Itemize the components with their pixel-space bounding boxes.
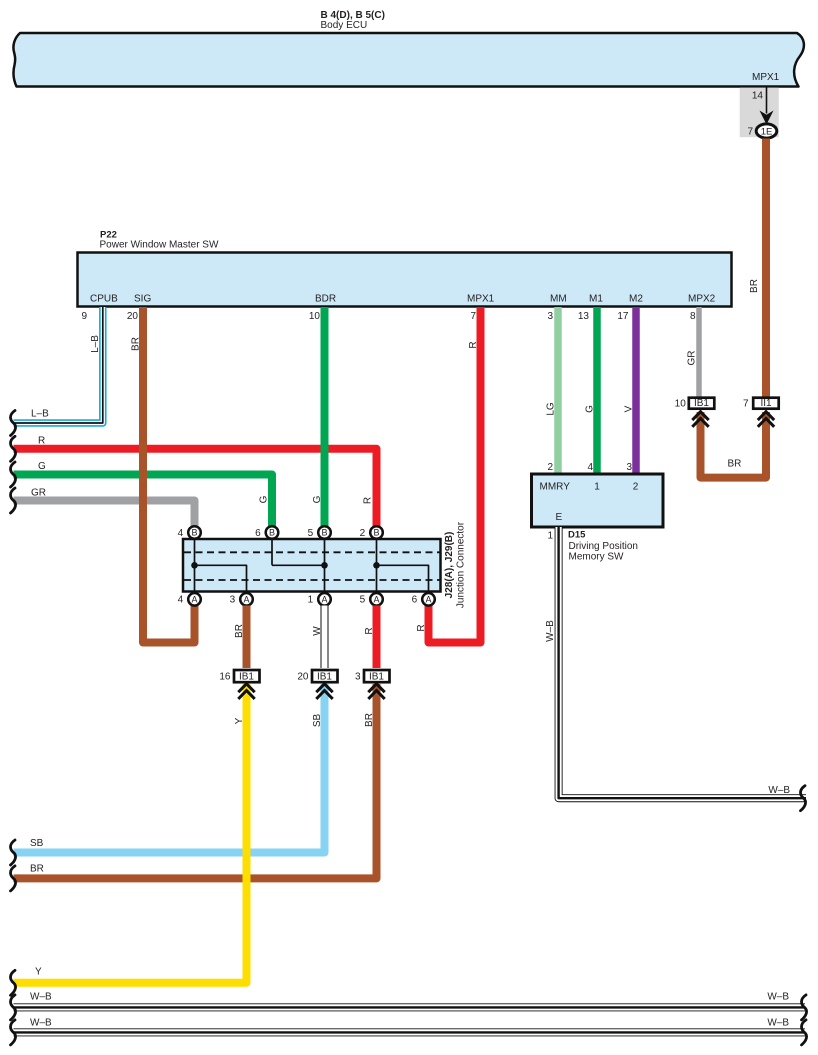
svg-text:W–B: W–B	[767, 992, 789, 1003]
connector IB1 (16)	[234, 670, 260, 682]
svg-text:R: R	[38, 436, 45, 447]
svg-text:1E: 1E	[761, 126, 773, 137]
svg-text:V: V	[624, 405, 635, 412]
wire Y from IB1 to left edge	[14, 684, 247, 983]
wire GR (left edge to 4B)	[14, 501, 195, 528]
Body ECU connector band	[13, 33, 803, 87]
svg-text:MPX2: MPX2	[688, 294, 716, 305]
svg-text:IB1: IB1	[694, 398, 709, 409]
wire GR from MPX2 to IB1	[696, 307, 702, 397]
arrow	[760, 111, 774, 125]
svg-text:M1: M1	[589, 294, 603, 305]
torn edge marks left (upper)	[11, 411, 16, 436]
pin 6B	[266, 526, 279, 539]
svg-text:A: A	[321, 595, 327, 605]
svg-text:4: 4	[178, 595, 184, 606]
svg-text:R: R	[468, 341, 479, 348]
wire SB from IB1 to left edge	[14, 684, 325, 853]
wire L-B from CPUB	[14, 307, 103, 423]
svg-text:MM: MM	[550, 294, 567, 305]
svg-text:BR: BR	[728, 459, 742, 470]
svg-text:MMRY: MMRY	[540, 482, 571, 493]
svg-text:BDR: BDR	[315, 294, 336, 305]
wire G (left edge to 6B)	[14, 475, 273, 528]
torn mark right	[801, 786, 806, 811]
internal wiring	[195, 539, 429, 591]
svg-text:9: 9	[81, 311, 87, 322]
svg-text:20: 20	[297, 672, 309, 683]
connector IB1 (20)	[312, 670, 338, 682]
svg-text:B: B	[191, 528, 197, 538]
svg-text:3: 3	[626, 462, 632, 473]
svg-text:MPX1: MPX1	[467, 294, 495, 305]
svg-text:BR: BR	[364, 713, 375, 727]
svg-text:B: B	[269, 528, 275, 538]
svg-text:Junction Connector: Junction Connector	[456, 521, 467, 608]
wire BR from SIG to 4A	[143, 307, 195, 643]
svg-text:3: 3	[230, 595, 236, 606]
svg-text:IB1: IB1	[239, 672, 254, 683]
svg-text:SB: SB	[30, 838, 44, 849]
pin 4B	[188, 526, 201, 539]
connector 1E	[756, 124, 777, 138]
pin 5A	[370, 593, 383, 606]
svg-text:W–B: W–B	[767, 1018, 789, 1029]
svg-text:J28(A), J29(B): J28(A), J29(B)	[444, 532, 455, 599]
svg-text:LG: LG	[545, 402, 556, 416]
connector IB1 (3)	[364, 670, 390, 682]
wire pin lead	[766, 87, 768, 114]
svg-text:17: 17	[617, 311, 629, 322]
svg-text:W: W	[312, 626, 323, 636]
svg-text:14: 14	[752, 91, 764, 102]
connector IB1 (10) right	[689, 398, 715, 409]
svg-text:Body ECU: Body ECU	[321, 20, 368, 31]
pin 4A	[188, 593, 201, 606]
P22 Power Window Master SW box	[78, 253, 732, 307]
junction dots	[191, 562, 198, 569]
svg-text:10: 10	[675, 399, 687, 410]
svg-text:II1: II1	[760, 398, 772, 409]
svg-text:Power Window Master SW: Power Window Master SW	[100, 240, 219, 251]
svg-text:3: 3	[355, 672, 361, 683]
torn marks left (lower)	[11, 840, 16, 865]
dashed row lines	[184, 551, 440, 553]
wire G from M1 to D15	[593, 307, 601, 475]
svg-text:20: 20	[127, 311, 139, 322]
svg-text:Driving Position: Driving Position	[569, 541, 638, 552]
svg-text:A: A	[191, 595, 197, 605]
svg-text:GR: GR	[687, 351, 698, 366]
svg-text:G: G	[585, 405, 596, 413]
wire BR from 1E to II1	[762, 139, 770, 398]
svg-text:7: 7	[743, 399, 749, 410]
svg-text:7: 7	[470, 311, 476, 322]
svg-text:R: R	[416, 624, 427, 631]
wire BR 3A to IB1	[243, 606, 251, 669]
pin 2B	[370, 526, 383, 539]
svg-text:2: 2	[547, 462, 553, 473]
svg-text:2: 2	[360, 528, 366, 539]
wire W 1A to IB1	[321, 606, 329, 669]
svg-text:5: 5	[360, 595, 366, 606]
svg-text:Y: Y	[234, 717, 245, 724]
svg-text:5: 5	[308, 528, 314, 539]
svg-text:1: 1	[308, 595, 314, 606]
svg-text:13: 13	[578, 311, 590, 322]
svg-text:6: 6	[255, 528, 261, 539]
svg-text:BR: BR	[749, 279, 760, 293]
wire G from BDR to 5B	[321, 307, 329, 528]
svg-text:BR: BR	[30, 864, 44, 875]
svg-text:Y: Y	[35, 967, 42, 978]
svg-text:W–B: W–B	[768, 785, 790, 796]
D15 Driving Position Memory SW box	[532, 474, 664, 527]
svg-text:1: 1	[547, 531, 553, 542]
svg-text:A: A	[425, 595, 431, 605]
svg-text:W–B: W–B	[545, 620, 556, 642]
svg-text:10: 10	[309, 311, 321, 322]
wire W-B from D15 E to right edge	[559, 527, 806, 798]
svg-text:Memory SW: Memory SW	[569, 552, 625, 563]
svg-text:M2: M2	[629, 294, 643, 305]
wire R (left edge to 2B)	[14, 449, 377, 528]
pin 5B	[318, 526, 331, 539]
junction connector J28(A), J29(B) box	[183, 539, 441, 592]
svg-text:L–B: L–B	[31, 409, 49, 420]
svg-text:1: 1	[594, 482, 600, 493]
svg-text:B: B	[321, 528, 327, 538]
svg-text:4: 4	[587, 462, 593, 473]
svg-text:D15: D15	[568, 530, 586, 541]
svg-text:IB1: IB1	[317, 672, 332, 683]
svg-text:G: G	[38, 461, 46, 472]
svg-text:6: 6	[412, 595, 418, 606]
wire R from MPX1 to 6A	[429, 307, 481, 643]
pin 1A	[318, 593, 331, 606]
svg-text:W–B: W–B	[30, 992, 52, 1003]
svg-text:IB1: IB1	[369, 672, 384, 683]
svg-text:SB: SB	[312, 714, 323, 728]
shield highlight	[740, 88, 779, 138]
wire BR loop IB1 to II1	[701, 412, 767, 478]
pin 6A	[422, 593, 435, 606]
svg-text:SIG: SIG	[134, 294, 151, 305]
svg-text:BR: BR	[234, 624, 245, 638]
svg-text:E: E	[556, 512, 563, 523]
svg-text:CPUB: CPUB	[90, 294, 118, 305]
svg-text:G: G	[312, 495, 323, 503]
svg-text:16: 16	[219, 672, 231, 683]
svg-text:3: 3	[547, 311, 553, 322]
wire BR from IB1 to left edge	[14, 684, 377, 878]
svg-text:4: 4	[178, 528, 184, 539]
svg-text:BR: BR	[131, 337, 142, 351]
connector II1 (7) right	[753, 398, 779, 409]
wire V from M2 to D15	[632, 307, 640, 475]
svg-text:8: 8	[690, 311, 696, 322]
svg-text:GR: GR	[31, 488, 46, 499]
svg-text:W–B: W–B	[30, 1018, 52, 1029]
W-B bus 1	[14, 1003, 806, 1011]
svg-text:2: 2	[633, 482, 639, 493]
svg-text:A: A	[373, 595, 379, 605]
svg-text:A: A	[243, 595, 249, 605]
pin 3A	[240, 593, 253, 606]
W-B bus 2	[14, 1028, 806, 1036]
svg-text:7: 7	[747, 127, 753, 138]
svg-text:MPX1: MPX1	[752, 72, 780, 83]
svg-text:G: G	[259, 495, 270, 503]
svg-text:B: B	[373, 528, 379, 538]
wire LG from MM to D15	[554, 307, 562, 475]
wire R 5A to IB1	[373, 606, 381, 669]
svg-text:R: R	[364, 627, 375, 634]
svg-text:L–B: L–B	[90, 335, 101, 353]
svg-text:R: R	[363, 497, 374, 504]
